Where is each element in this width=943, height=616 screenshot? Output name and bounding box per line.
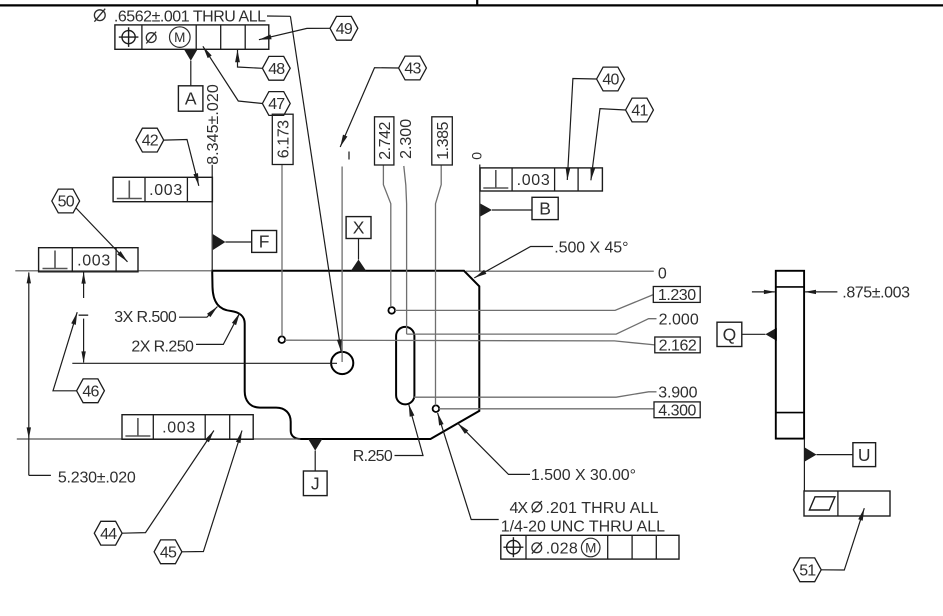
svg-text:.003: .003 (77, 252, 111, 269)
svg-text:46: 46 (82, 383, 99, 400)
svg-text:J: J (311, 474, 320, 494)
svg-text:4X: 4X (510, 500, 529, 517)
svg-text:M: M (585, 540, 596, 555)
svg-text:R.250: R.250 (353, 448, 393, 465)
svg-text:1.230: 1.230 (658, 287, 696, 304)
svg-text:41: 41 (631, 103, 648, 120)
svg-text:X: X (353, 218, 365, 238)
svg-text:3X R.500: 3X R.500 (114, 309, 177, 326)
svg-text:0: 0 (658, 266, 667, 283)
svg-text:5.230±.020: 5.230±.020 (58, 469, 136, 486)
svg-text:.003: .003 (149, 182, 183, 199)
svg-text:0: 0 (468, 152, 484, 160)
svg-text:1.385: 1.385 (435, 121, 452, 159)
svg-text:43: 43 (404, 61, 421, 78)
svg-text:6.173: 6.173 (275, 120, 292, 158)
svg-text:Q: Q (723, 325, 737, 345)
svg-text:44: 44 (100, 526, 117, 543)
svg-text:.6562±.001 THRU ALL: .6562±.001 THRU ALL (114, 8, 266, 25)
svg-text:2.742: 2.742 (377, 121, 394, 159)
svg-text:B: B (539, 199, 551, 219)
svg-text:A: A (185, 89, 197, 109)
svg-text:49: 49 (336, 21, 353, 38)
svg-text:2X R.250: 2X R.250 (131, 339, 194, 356)
svg-text:F: F (259, 232, 270, 252)
svg-text:8.345±.020: 8.345±.020 (205, 84, 222, 165)
svg-text:.003: .003 (517, 172, 551, 189)
svg-text:51: 51 (799, 562, 816, 579)
svg-text:50: 50 (58, 194, 75, 211)
svg-text:.201 THRU ALL: .201 THRU ALL (546, 500, 659, 517)
svg-text:2.300: 2.300 (398, 119, 415, 159)
svg-text:48: 48 (268, 61, 285, 78)
svg-text:.875±.003: .875±.003 (842, 285, 910, 302)
svg-text:45: 45 (160, 544, 177, 561)
svg-text:1.500 X 30.00°: 1.500 X 30.00° (531, 467, 636, 484)
svg-text:40: 40 (602, 72, 619, 89)
svg-text:M: M (174, 30, 185, 45)
svg-text:.003: .003 (162, 420, 196, 437)
svg-text:.500 X 45°: .500 X 45° (554, 240, 628, 257)
svg-text:47: 47 (268, 96, 285, 113)
svg-text:1/4-20 UNC THRU ALL: 1/4-20 UNC THRU ALL (501, 519, 665, 536)
svg-text:2.000: 2.000 (659, 311, 699, 328)
svg-text:.028: .028 (546, 540, 578, 557)
svg-text:3.900: 3.900 (658, 385, 697, 402)
svg-text:U: U (858, 445, 871, 465)
svg-text:42: 42 (142, 133, 159, 150)
svg-text:2.162: 2.162 (659, 338, 697, 355)
svg-text:4.300: 4.300 (658, 403, 696, 420)
